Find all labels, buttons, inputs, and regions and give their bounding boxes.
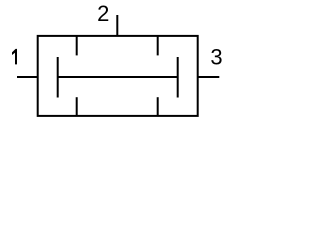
left electrode plate bbox=[57, 57, 59, 98]
bottom-left capacitor tick bbox=[76, 97, 78, 116]
pin 3 lead wire bbox=[198, 76, 220, 78]
top-right capacitor tick bbox=[157, 36, 159, 56]
pin label 1 bbox=[12, 49, 17, 65]
right electrode plate bbox=[177, 57, 179, 98]
pin 2 lead wire bbox=[116, 15, 118, 36]
pin 1 lead wire bbox=[17, 76, 38, 78]
top-left capacitor tick bbox=[76, 36, 78, 56]
ceramic resonator X1 (3-terminal) bbox=[0, 0, 228, 129]
svg-text:2: 2 bbox=[97, 1, 109, 26]
resonator case outline bbox=[38, 36, 198, 116]
svg-text:3: 3 bbox=[210, 45, 222, 70]
bottom-right capacitor tick bbox=[157, 97, 159, 116]
crystal element bar bbox=[58, 76, 178, 78]
